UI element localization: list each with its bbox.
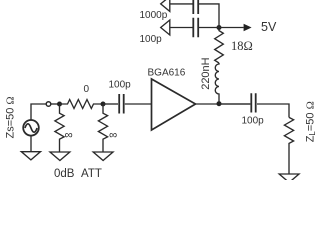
capacitor C 100p output coupling — [251, 93, 255, 112]
wire output cap to load corner — [257, 104, 289, 117]
node C junction dot — [217, 101, 222, 106]
wire cap1000p to ground triangle — [170, 3, 193, 5]
svg-text:100p: 100p — [242, 116, 265, 127]
capacitor C 100p bypass — [193, 18, 198, 38]
svg-text:∞: ∞ — [109, 130, 117, 142]
capacitor C 1000p bypass — [193, 0, 198, 14]
wire node D up to bypass row 1 — [199, 4, 219, 28]
wire node D left to bypass row 2 — [199, 27, 219, 29]
wire source top to main line — [31, 104, 46, 120]
svg-text:100p: 100p — [109, 80, 132, 91]
svg-text:1000p: 1000p — [140, 10, 168, 21]
node B junction dot — [101, 102, 106, 107]
svg-text:100p: 100p — [140, 34, 163, 45]
ground under left shunt resistor — [50, 152, 70, 161]
svg-text:0dB: 0dB — [54, 168, 75, 180]
node A junction dot — [57, 102, 62, 107]
sine symbol inside source — [25, 124, 37, 132]
voltage source VS (AC, Zs=50) — [23, 120, 39, 136]
ground under load — [279, 174, 299, 183]
svg-text:0: 0 — [84, 84, 90, 95]
ground (left-pointing) for 100p bypass — [161, 20, 170, 35]
wire node B to input cap — [103, 103, 118, 105]
ground under source — [21, 152, 40, 160]
svg-text:ZL=50 Ω: ZL=50 Ω — [305, 101, 318, 142]
capacitor C 100p input coupling — [119, 94, 124, 114]
wire port to node A — [51, 103, 60, 105]
ground under right shunt resistor — [93, 152, 113, 161]
svg-text:18Ω: 18Ω — [231, 39, 253, 53]
inductor L 220nH — [215, 63, 219, 102]
shunt resistor (ATT) right, value ∞ — [98, 104, 107, 152]
resistor R 18Ω — [215, 28, 224, 64]
svg-text:ATT: ATT — [81, 168, 102, 180]
wire node C to output cap — [219, 103, 250, 105]
svg-text:BGA616: BGA616 — [148, 68, 186, 79]
svg-text:5V: 5V — [261, 20, 277, 34]
wire amp output to node C — [196, 103, 251, 105]
node D junction dot (5V feed) — [217, 25, 222, 30]
op-amp U1 BGA616 — [152, 79, 196, 130]
svg-text:∞: ∞ — [65, 130, 73, 142]
5V supply arrow — [219, 27, 244, 29]
resistor R series value 0 — [60, 100, 104, 109]
ground (left-pointing) for 1000p — [161, 0, 170, 11]
svg-text:220nH: 220nH — [200, 57, 212, 89]
wire input cap to amp — [125, 103, 152, 105]
svg-text:Zs=50 Ω: Zs=50 Ω — [5, 96, 17, 138]
wire cap100p to ground triangle — [170, 27, 193, 29]
shunt resistor (ATT) left, value ∞ — [55, 104, 64, 152]
node: input port (open terminal) — [46, 102, 51, 107]
wire source bottom to ground — [30, 136, 32, 152]
resistor RL load ZL=50 — [284, 117, 293, 174]
